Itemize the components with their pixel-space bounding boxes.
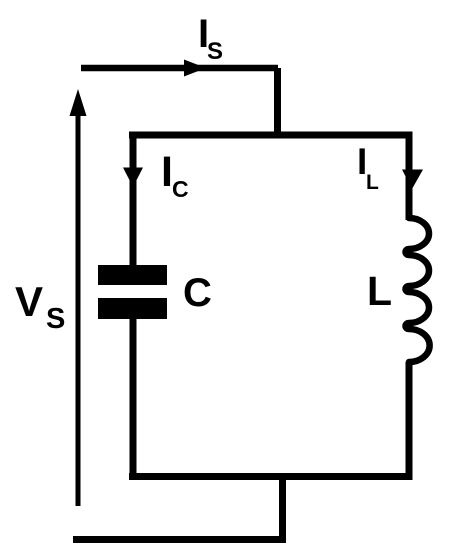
capacitor C1 top plate	[98, 265, 167, 285]
wire top feed from source	[81, 65, 278, 72]
wire bottom return to source	[73, 536, 286, 543]
svg-text:S: S	[46, 303, 65, 335]
capacitor C1 bottom plate	[98, 298, 167, 319]
svg-text:V: V	[15, 278, 43, 325]
wire left branch upper (to capacitor)	[130, 132, 137, 265]
svg-text:L: L	[367, 268, 392, 314]
arrowhead I_C current direction	[123, 168, 143, 188]
voltage arrow V_S head	[70, 89, 87, 116]
wire right branch upper (to inductor)	[406, 132, 413, 220]
arrowhead I_L current direction	[402, 170, 423, 190]
node top tank rail	[129, 132, 413, 139]
wire left branch lower (from capacitor)	[130, 319, 137, 480]
inductor L1 coil	[406, 218, 430, 362]
node bottom tank rail	[129, 473, 413, 480]
svg-text:L: L	[366, 171, 379, 194]
wire vertical into tank top	[274, 68, 281, 137]
svg-text:S: S	[207, 38, 223, 65]
wire bottom drop from tank	[279, 478, 286, 543]
svg-text:C: C	[183, 271, 212, 315]
svg-text:C: C	[172, 176, 189, 202]
wire right branch lower (from inductor)	[406, 362, 413, 480]
voltage arrow V_S shaft	[76, 112, 81, 506]
arrowhead I_S current direction	[184, 60, 206, 77]
